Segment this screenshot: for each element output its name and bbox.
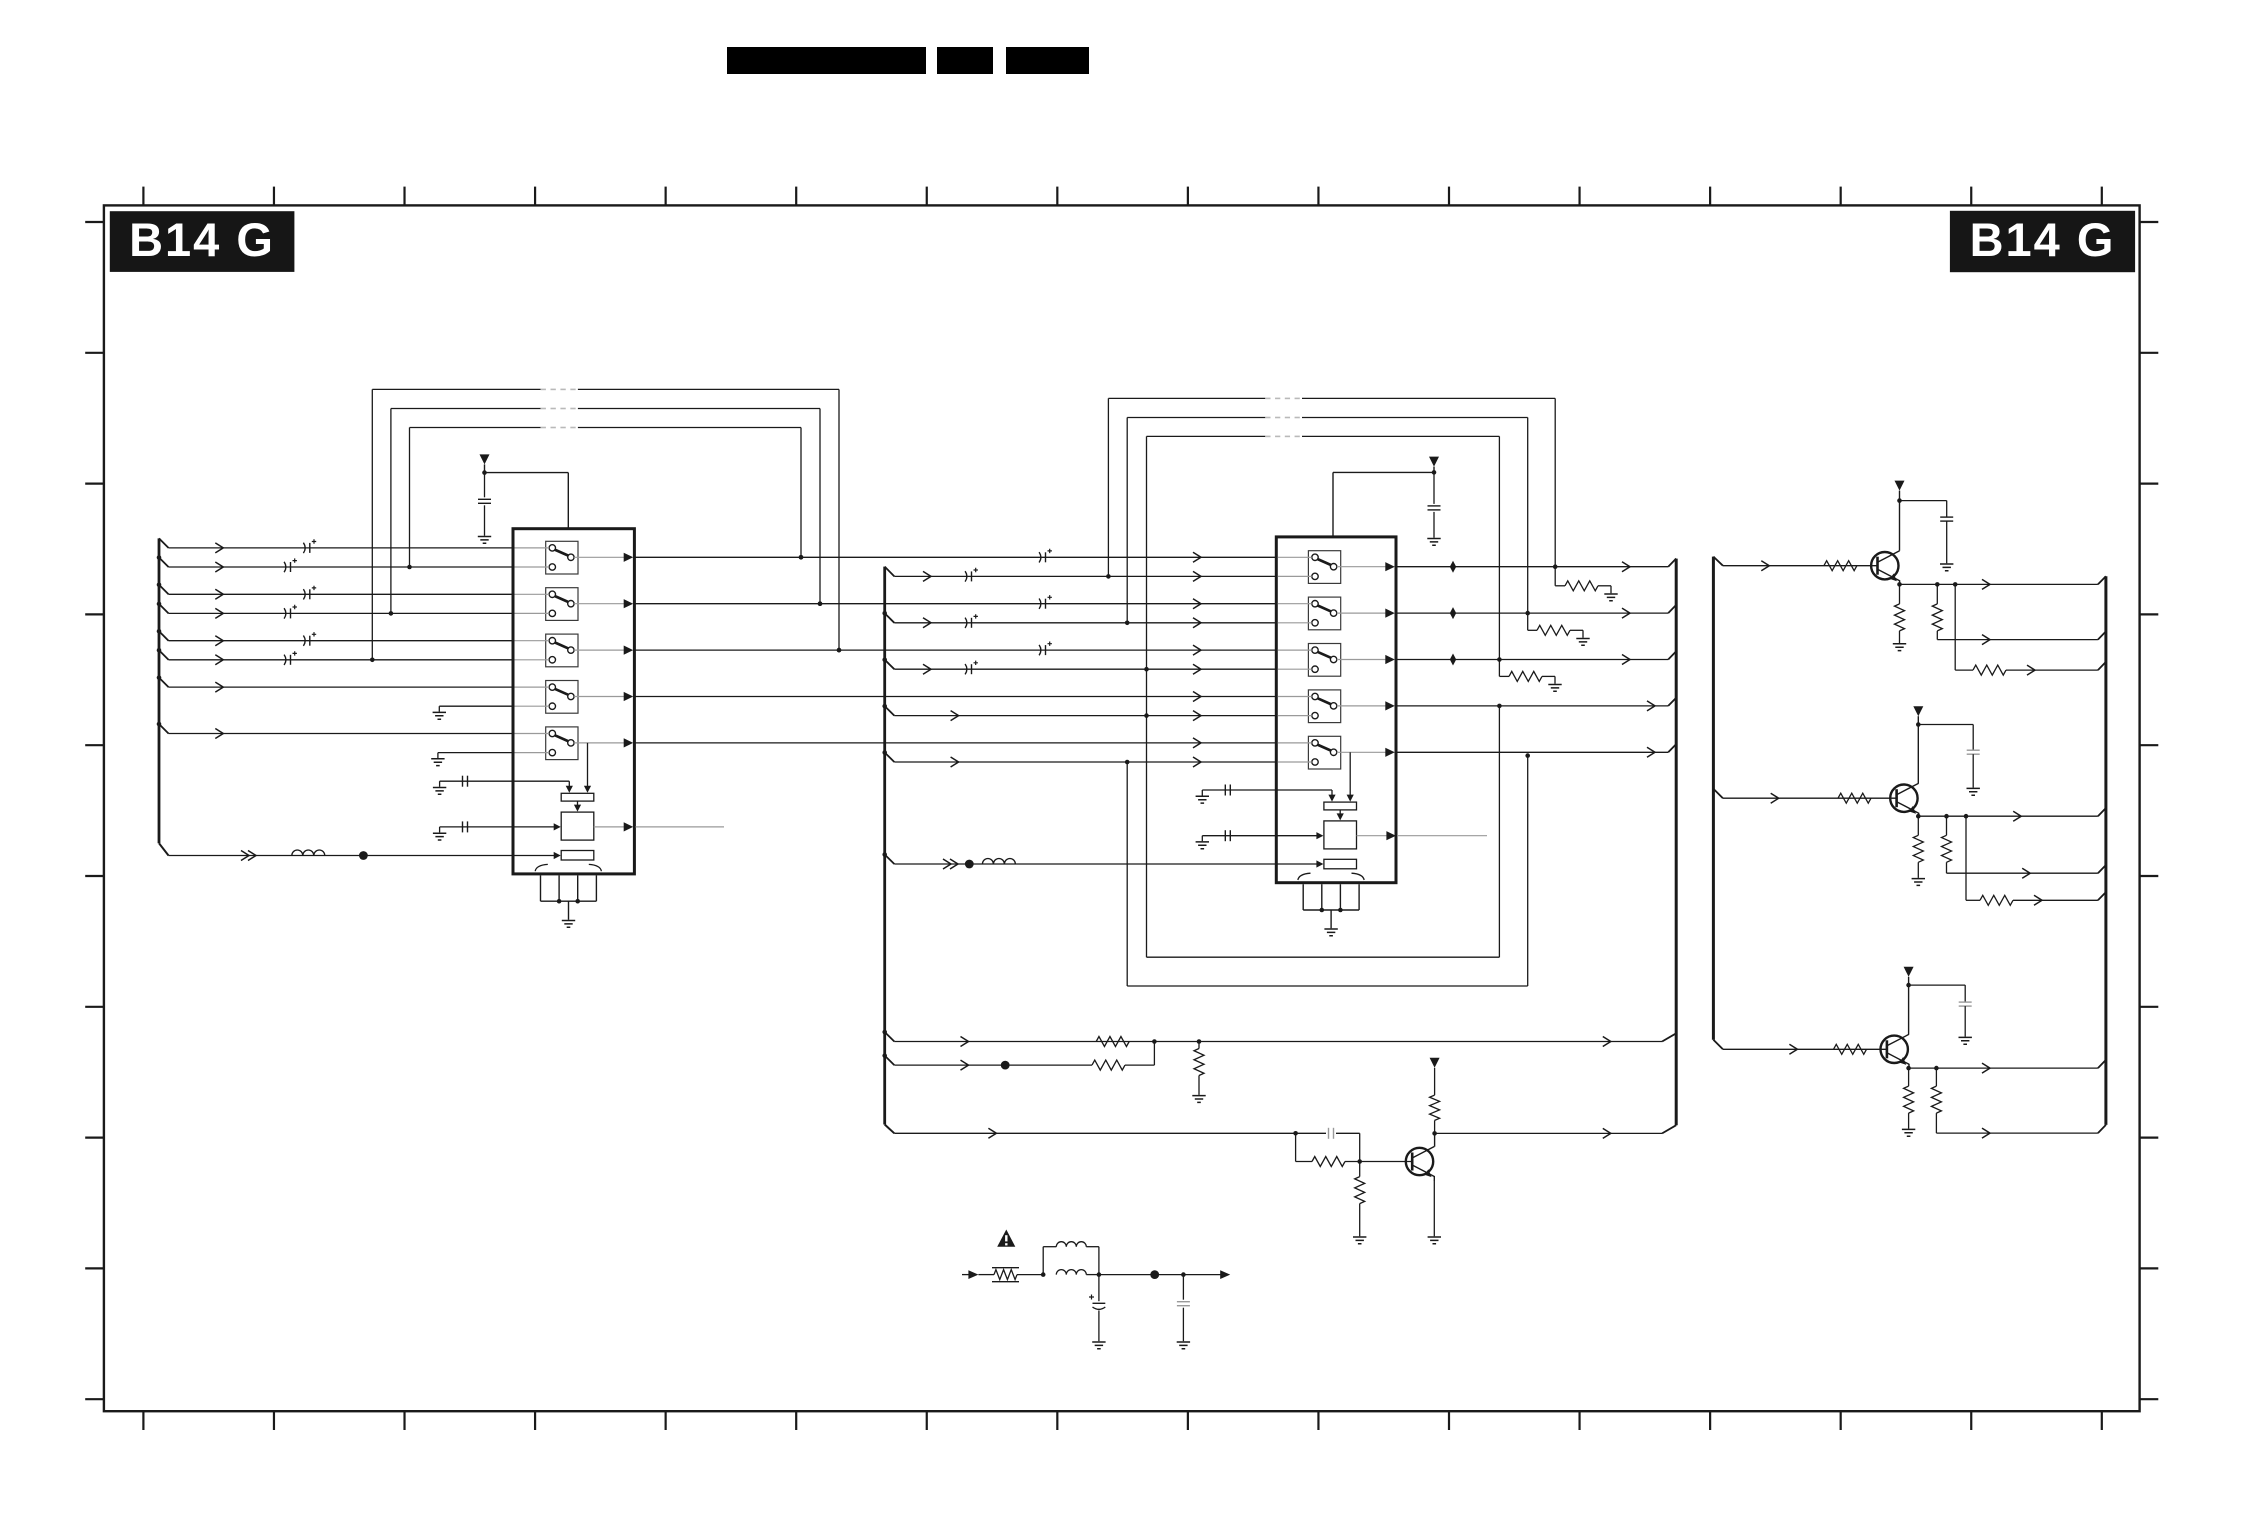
series resistor wire (Q2) to output bus xyxy=(1966,816,2106,905)
switch S1 inside U1 xyxy=(515,541,634,574)
capacitor C6 (series, polarized) xyxy=(284,655,286,665)
transistor Q3 xyxy=(1881,1034,1910,1068)
resistor R3 to ground xyxy=(1499,671,1561,691)
logic output wire (U2) xyxy=(1357,831,1488,840)
transistor Q4 xyxy=(1406,1147,1435,1181)
capacitor C2 (series, polarized) xyxy=(284,562,286,572)
wire row 5 into U1 xyxy=(157,629,514,646)
switch S8 inside U2 xyxy=(1278,644,1395,677)
warning triangle xyxy=(997,1230,1015,1247)
base wire to Q3 xyxy=(1713,1040,1887,1055)
wire to output (bottom filter) xyxy=(1099,1270,1222,1279)
switch S2 inside U1 xyxy=(515,588,634,621)
logic box (U2) xyxy=(1324,821,1357,849)
wire U1 out 3 to U2 in xyxy=(634,642,1277,656)
capacitor + ground into U2 (ctl A) xyxy=(1196,785,1278,804)
switch S10 inside U2 xyxy=(1278,736,1395,769)
power supply arrow (U2 Vcc) xyxy=(1333,457,1439,536)
wire row 1 into U1 xyxy=(159,538,514,553)
input bus (left) xyxy=(159,538,169,855)
wire Q2 emitter to output bus xyxy=(1918,808,2106,821)
IC U2 switch block outline xyxy=(1276,537,1396,883)
feedback return wire (outer) xyxy=(1125,753,1530,986)
distribution bus xyxy=(1712,557,1715,1040)
wire bus row 1 to U2 lower in xyxy=(885,567,1278,582)
decoupling capacitor to ground (U2) xyxy=(1427,472,1440,545)
title bar 2 xyxy=(937,47,993,74)
pin bracket marks (U1) xyxy=(535,864,601,871)
wire U2 out 5 to collector bus xyxy=(1396,744,1676,757)
wire bus row 3 to U2 lower in xyxy=(882,657,1277,674)
transistor Q1 xyxy=(1871,551,1899,585)
wire Q4 collector to collector bus xyxy=(1435,1125,1677,1138)
input arrow (bottom filter) xyxy=(962,1270,978,1279)
inductor L1 on sense line into U1 xyxy=(169,850,561,861)
wire register to logic box (U2) xyxy=(1337,810,1344,821)
fusible resistor (bottom filter) xyxy=(978,1268,1043,1282)
U1 ground pins to ground xyxy=(541,875,597,927)
emitter resistor of Q2 to ground xyxy=(1912,814,1925,886)
base wire to Q1 xyxy=(1713,557,1877,571)
capacitor C5 (series, polarized) xyxy=(303,636,305,646)
wire row 3 into U1 xyxy=(157,583,514,600)
logic box (U1) xyxy=(561,812,594,840)
feedback loop wire L1 (U1) xyxy=(370,389,841,662)
switch S6 inside U2 xyxy=(1278,551,1395,584)
capacitor to ground (Q2 collector) xyxy=(1918,725,1980,796)
feedback loop wire L2 (U1) xyxy=(389,409,823,616)
capacitor C3 (series, polarized) xyxy=(303,589,305,599)
U2 ground pins to ground xyxy=(1303,884,1359,936)
mux input register (U2) xyxy=(1324,802,1357,810)
feedback loop wire L4 (U2 outer) xyxy=(1106,398,1557,585)
wire row 2 into U1 xyxy=(157,555,514,572)
base wire to Q2 xyxy=(1713,789,1896,804)
input bus (middle) xyxy=(885,567,895,1134)
node (loop tap L1 upper) xyxy=(837,648,842,653)
frame tick marks xyxy=(85,187,2158,1430)
base bias resistor of Q4 to ground xyxy=(1353,1162,1366,1244)
switch S4 inside U1 xyxy=(515,681,634,714)
wire row 8 into U1 xyxy=(157,722,514,739)
resistor divider wire (Q2) to output bus xyxy=(1942,816,2106,878)
resistor R (Q4 base, parallel) xyxy=(1296,1133,1413,1166)
wire row 7 into U1 xyxy=(157,675,514,692)
svg-text:B14 G: B14 G xyxy=(1970,213,2116,266)
capacitor + ground into U1 (ctl A) xyxy=(433,776,514,795)
wire bus row B joining row A xyxy=(882,1042,1154,1071)
wire Q1 emitter to output bus xyxy=(1900,576,2106,589)
power supply arrow (U1 Vcc) xyxy=(480,454,569,527)
capacitor C to ground (bottom filter) xyxy=(1177,1275,1190,1349)
capacitor C (Q4 base, parallel) xyxy=(1296,1128,1360,1162)
switch S5 inside U1 xyxy=(515,727,634,760)
wire U1 out 1 to U2 in xyxy=(634,549,1277,563)
wire from S10 output into mux (U2) xyxy=(1347,752,1354,801)
inductor L4 (parallel, bottom) xyxy=(1056,1270,1101,1277)
wire into mux (U2) xyxy=(1276,790,1335,802)
feedback return wire (inner) xyxy=(1147,704,1502,958)
wire U1 out 2 to U2 in xyxy=(634,595,1277,609)
resistor R1 to ground xyxy=(1555,581,1618,601)
mux input register (U1) xyxy=(561,793,594,801)
switch S3 inside U1 xyxy=(515,634,634,667)
wire row 4 into U1 xyxy=(157,602,514,619)
wire U2 out 2 to collector bus xyxy=(1396,605,1676,619)
wire bus bottom row to Q4 network xyxy=(894,1128,1298,1138)
wire U1 out 4 to U2 in xyxy=(634,692,1277,702)
logic output wire (U1) xyxy=(594,822,724,831)
switch S7 inside U2 xyxy=(1278,597,1395,630)
emitter resistor of Q1 to ground xyxy=(1893,582,1906,650)
power supply arrow (Q3 collector) xyxy=(1904,967,1914,1035)
status register (U1) xyxy=(561,851,594,861)
wire bus row 4 to U2 lower in xyxy=(882,704,1277,721)
feedback loop wire L3 (U1) xyxy=(407,428,803,570)
wire U2 out 1 to collector bus xyxy=(1396,559,1676,573)
emitter resistor of Q3 to ground xyxy=(1902,1066,1915,1136)
capacitor C1 (series, polarized) xyxy=(303,543,305,553)
wire into mux (U1) xyxy=(513,781,573,793)
feedback loop wire L6 (U2 inner) xyxy=(1144,436,1502,957)
resistor to ground (row A) xyxy=(1192,1042,1205,1103)
resistor R2 to ground xyxy=(1528,625,1590,645)
grid label B14 G (top-left) xyxy=(110,211,295,272)
capacitor to ground (Q1 collector) xyxy=(1900,501,1954,571)
capacitor C4 (series, polarized) xyxy=(284,608,286,618)
wire bus row A to collector bus xyxy=(882,1030,1676,1047)
title bar 3 xyxy=(1006,47,1089,74)
collector resistor of Q4 to supply xyxy=(1430,1058,1440,1147)
resistor divider wire (Q3) to output bus xyxy=(1931,1068,2105,1138)
wire Q3 emitter to output bus xyxy=(1909,1060,2106,1073)
node (loop tap L3 upper) xyxy=(799,555,804,560)
wire bus row 5 to U2 lower in xyxy=(882,750,1277,767)
grid label B14 G (top-right) xyxy=(1950,211,2135,272)
resistor divider wire (Q1) to output bus xyxy=(1932,584,2106,644)
capacitor + ground into U2 (ctl B) xyxy=(1196,830,1324,849)
collector bus (right of U2) xyxy=(1675,559,1678,1126)
wire U2 out 3 to collector bus xyxy=(1396,651,1676,665)
status register (U2) xyxy=(1324,859,1357,869)
wire bus row 2 to U2 lower in xyxy=(882,611,1277,628)
power supply arrow (Q1 collector) xyxy=(1895,481,1905,551)
inductor L2 on sense line into U2 xyxy=(882,852,1323,869)
output bus (far right) xyxy=(2104,576,2107,1125)
ground at U1 pin (S4 lower) xyxy=(433,706,514,719)
svg-text:B14 G: B14 G xyxy=(129,213,275,266)
wire U2 out 4 to collector bus xyxy=(1396,698,1676,711)
wire register to logic box (U1) xyxy=(574,801,581,812)
inductor L3 (parallel, top) xyxy=(1041,1242,1099,1277)
wire row 6 into U1 xyxy=(157,648,514,665)
Q4 emitter to ground xyxy=(1428,1180,1441,1244)
capacitor C+ to ground (bottom filter) xyxy=(1089,1275,1106,1349)
wire U1 out 5 to U2 in xyxy=(634,738,1277,748)
wire from S5 output into mux (U1) xyxy=(584,743,591,793)
capacitor + ground into U1 (ctl B) xyxy=(433,821,561,840)
power supply arrow (Q2 collector) xyxy=(1913,706,1923,783)
transistor Q2 xyxy=(1890,783,1918,817)
border frame xyxy=(104,205,2140,1411)
pin bracket marks (U2) xyxy=(1298,873,1364,880)
series resistor wire (Q1) to output bus xyxy=(1955,584,2106,675)
title bar 1 xyxy=(727,47,926,74)
feedback loop wire L5 (U2 middle) xyxy=(1125,418,1530,631)
ground at U1 pin (S5 lower) xyxy=(431,753,514,766)
node (loop tap L2 upper) xyxy=(818,601,823,606)
output arrow (bottom filter) xyxy=(1220,1270,1230,1279)
IC U1 switch block outline xyxy=(513,529,634,874)
decoupling capacitor to ground (U1) xyxy=(478,473,491,544)
switch S9 inside U2 xyxy=(1278,690,1395,723)
capacitor to ground (Q3 collector) xyxy=(1909,985,1972,1044)
